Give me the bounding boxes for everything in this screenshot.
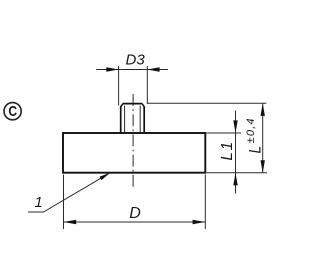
L1 arrow bottom (points up at body bottom line) [233, 173, 237, 186]
svg-text:C: C [8, 103, 17, 119]
thread root line right (thin) [139, 106, 141, 133]
L/L1 extension line bottom (from body bottom-right to right) [207, 172, 268, 174]
D3 dimension line [96, 69, 168, 71]
D3 extension line right [146, 66, 148, 104]
body (magnet housing rectangle, thick outline) [63, 133, 205, 173]
view label C circle [4, 103, 21, 120]
stud left chamfer [121, 104, 123, 107]
D3 arrow right (points left at extension line) [147, 67, 159, 71]
L dimension line [262, 103, 264, 173]
D dimension line [64, 221, 206, 223]
D extension line left [63, 175, 65, 230]
svg-text:L1: L1 [219, 140, 236, 160]
stud right flank (thick) [143, 106, 145, 132]
centerline (vertical dash-dot axis) [132, 94, 134, 188]
L arrow top (points up at stud-top line) [261, 103, 265, 116]
svg-text:L: L [246, 146, 265, 153]
svg-text:±0,4: ±0,4 [245, 117, 257, 143]
svg-text:D3: D3 [126, 52, 146, 69]
D arrow right (points right) [193, 220, 206, 224]
D3 arrow left (points right at extension line) [106, 67, 118, 71]
svg-text:1: 1 [34, 194, 42, 211]
D3 extension line left [118, 66, 120, 106]
stud top edge (thick) [123, 103, 142, 105]
D arrow left (points left) [64, 220, 77, 224]
L label with tolerance (rotated) [245, 117, 265, 153]
L extension line top (from stud top to right) [148, 102, 267, 104]
stud right chamfer [142, 104, 144, 107]
D extension line right [204, 175, 206, 230]
L1 dimension line [235, 111, 237, 194]
L1 arrow top (points down at body top line) [233, 120, 237, 133]
L1 extension line top (from body top-right to right) [207, 132, 242, 134]
thread root line left (thin) [124, 106, 126, 133]
leader line for item 1 [28, 173, 110, 212]
L arrow bottom (points down at bottom line) [261, 160, 265, 173]
svg-text:D: D [129, 205, 141, 222]
leader arrowhead (points up-right to body bottom edge) [100, 173, 111, 180]
stud left flank (thick) [120, 106, 122, 132]
